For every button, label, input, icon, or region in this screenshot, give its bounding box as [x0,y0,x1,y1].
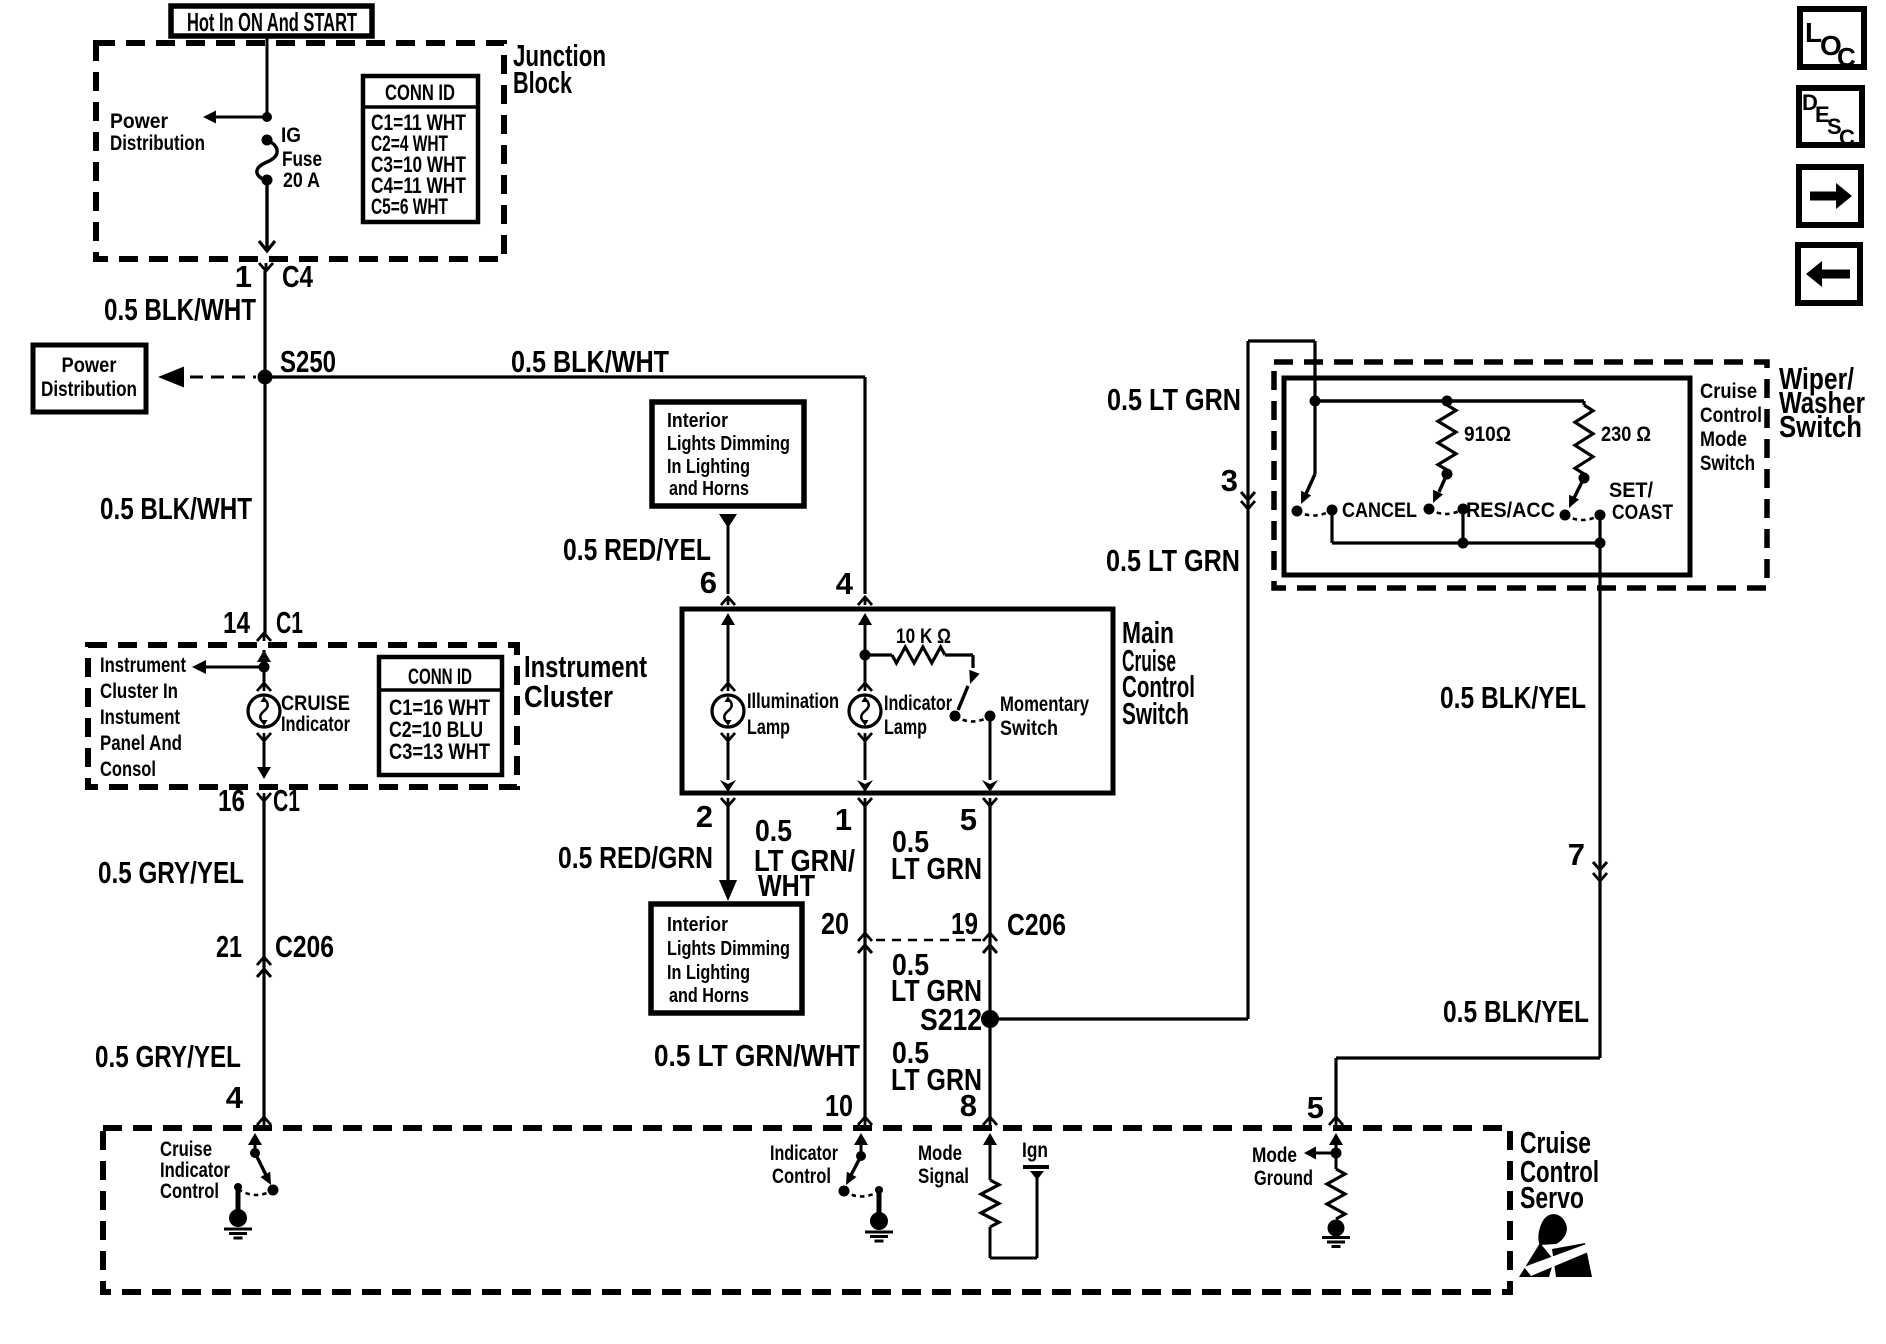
lamp Indicator Lamp [849,613,952,780]
svg-text:CONN ID: CONN ID [385,80,455,105]
Cruise Control Mode Switch box [1284,378,1690,575]
Interior Lights Dimming box (upper) [652,402,804,506]
svg-text:10 K Ω: 10 K Ω [896,625,951,648]
svg-text:C206: C206 [275,929,334,964]
svg-text:230 Ω: 230 Ω [1601,423,1651,446]
Power Distribution box (left) [33,345,146,412]
fuse IG Fuse 20 A [257,124,322,192]
wire label 0.5 GRY/YEL (upper) [98,855,244,890]
svg-text:Interior: Interior [667,914,728,936]
wire: pin 1 down through 20 C206 to pin 10 [863,806,866,1117]
wire label 0.5 BLK/YEL (upper) [1440,680,1586,715]
arrow out bottom pin 1 [857,780,873,792]
svg-text:SET/: SET/ [1609,479,1653,502]
arrow into cluster from pin 14 [257,650,271,667]
svg-text:2: 2 [696,799,713,834]
svg-text:S212: S212 [920,1002,982,1037]
svg-text:C: C [1837,42,1856,72]
svg-text:C3=13 WHT: C3=13 WHT [389,739,490,764]
svg-text:20: 20 [821,906,849,941]
svg-text:0.5 LT GRN/WHT: 0.5 LT GRN/WHT [654,1038,860,1073]
Interior Lights Dimming box (lower) [651,904,802,1013]
svg-text:Lamp: Lamp [747,716,790,739]
svg-text:910Ω: 910Ω [1464,423,1511,446]
svg-text:Distribution: Distribution [110,132,205,155]
in-line connector 21 C206 [216,929,334,977]
connector pin 2 [696,798,735,834]
instrument cluster internal note text [100,654,186,781]
svg-text:21: 21 [216,929,242,964]
svg-text:0.5 LT GRN: 0.5 LT GRN [1107,382,1241,417]
svg-text:Control: Control [772,1165,831,1188]
arrow out of cluster to pin 16 [257,741,271,779]
svg-text:0.5 GRY/YEL: 0.5 GRY/YEL [95,1039,241,1074]
svg-text:14: 14 [223,605,251,640]
svg-text:Lights Dimming: Lights Dimming [667,938,790,960]
in-line connector 3 [1221,463,1255,509]
wire label 0.5 LT GRN/WHT (to pin 10) [654,1038,860,1073]
Junction Block dashed box [96,43,504,259]
svg-text:Instrument: Instrument [100,654,186,677]
svg-text:C4: C4 [282,259,314,294]
CONN ID table (junction block) [363,76,478,222]
svg-text:Block: Block [513,65,573,100]
svg-text:Cluster: Cluster [524,679,613,714]
left arrow button [1798,245,1860,303]
svg-text:Hot In ON And START: Hot In ON And START [187,7,357,37]
svg-text:C: C [1839,125,1855,150]
svg-text:Cluster In: Cluster In [100,680,178,703]
arrow from interior-lights box (upper) down [719,514,737,594]
svg-text:16: 16 [218,783,245,818]
wire: pin 16 down to C206 [262,801,265,1117]
LOC button [1800,9,1864,72]
wire: fuse output to pin 1 C4 [259,181,275,251]
connector pin 1 C4 [235,259,314,294]
wire: BLK/WHT drop to pin 4 of main switch [863,377,866,594]
wire label 0.5 BLK/WHT (C4 to S250) [104,292,256,327]
svg-text:0.5 BLK/WHT: 0.5 BLK/WHT [511,344,669,379]
servo switch: Cruise Indicator Control [160,1133,279,1203]
wire label 0.5 LT GRN (below S212) [891,1035,982,1097]
svg-text:Indicator: Indicator [160,1159,230,1182]
CONN ID table (instrument cluster) [379,657,502,775]
mode switch: bottom bus wire [1332,541,1600,544]
svg-text:Ign: Ign [1022,1139,1048,1162]
ground (indicator control) [865,1186,893,1241]
switch SET/COAST [1560,478,1674,549]
wire: pin 3 riser and jog into mode switch [1248,341,1315,1019]
svg-text:COAST: COAST [1612,501,1673,524]
splice node S250 [258,344,337,385]
wire: pin 5 down through 19 C206 to pin 8 [988,806,991,1117]
Cruise Control Mode Switch label [1700,380,1762,475]
svg-text:Mode: Mode [918,1142,962,1165]
Cruise Control Servo dashed box [103,1128,1510,1292]
Junction Block label [513,38,606,100]
Ign terminal [1022,1139,1049,1180]
svg-text:4: 4 [226,1080,244,1115]
svg-text:0.5 RED/GRN: 0.5 RED/GRN [558,840,713,875]
wire: battery feed from Hot box into junction block [266,36,269,117]
wire label 0.5 BLK/WHT (S250 branch down) [100,491,252,526]
svg-text:5: 5 [1307,1090,1324,1125]
svg-text:Switch: Switch [1122,696,1189,731]
svg-text:Interior: Interior [667,410,728,432]
lamp Illumination Lamp [712,613,839,780]
svg-text:19: 19 [951,906,978,941]
svg-text:0.5 GRY/YEL: 0.5 GRY/YEL [98,855,244,890]
svg-text:20 A: 20 A [283,169,320,192]
svg-text:Instument: Instument [100,706,180,729]
wire label 0.5 LT GRN (lower right) [1106,543,1240,578]
svg-text:7: 7 [1568,837,1585,872]
mode switch: top bus wire [1310,396,1585,407]
svg-text:WHT: WHT [758,868,815,903]
ground (mode ground) [1322,1220,1350,1247]
svg-text:10: 10 [825,1088,853,1123]
svg-text:0.5 BLK/WHT: 0.5 BLK/WHT [100,491,252,526]
connector pin 16 C1 [218,783,300,818]
svg-text:Indicator: Indicator [770,1142,838,1165]
wire label 0.5 LT GRN (below 19) [891,947,982,1008]
arrow out bottom pin 2 [720,780,736,792]
svg-text:Indicator: Indicator [884,692,952,715]
svg-text:3: 3 [1221,463,1238,498]
Wiper/Washer Switch label [1779,361,1865,444]
in-line connector 20 C206 [821,906,872,953]
svg-text:Indicator: Indicator [281,713,350,736]
S212 bus wire to riser [990,1017,1248,1020]
svg-text:Illumination: Illumination [747,690,839,713]
Main Cruise Control Switch label [1122,615,1195,731]
ESD sensitive device symbol [1519,1214,1593,1277]
svg-text:Distribution: Distribution [41,378,137,401]
svg-text:Cruise: Cruise [1700,380,1757,403]
svg-text:C1: C1 [273,783,300,818]
switch CANCEL [1292,401,1418,543]
momentary switch arm [950,655,1090,740]
in-line connector 19 C206 [951,906,1066,953]
connector pin 10 (servo indicator control) [825,1088,872,1125]
servo input: Mode Signal resistor [918,1133,1037,1258]
wire: horizontal 0.5 BLK/WHT from S250 to main cruise switch [265,344,865,379]
wire label 0.5 LT GRN (pin 5) [891,824,982,886]
connector pin 8 (servo mode signal) [960,1088,997,1125]
svg-text:S250: S250 [280,344,336,379]
svg-text:CONN ID: CONN ID [408,664,472,689]
svg-text:C206: C206 [1007,907,1066,942]
wire label 0.5 RED/YEL [563,532,711,567]
svg-text:and Horns: and Horns [669,985,749,1007]
connector pin 5 [960,798,997,837]
connector pin 14 C1 [223,605,303,641]
svg-text:LT GRN: LT GRN [891,851,982,886]
svg-text:CRUISE: CRUISE [281,692,350,715]
svg-text:Mode: Mode [1700,428,1747,451]
C206 connector dashed line [876,939,982,942]
svg-text:Servo: Servo [1520,1180,1584,1215]
connector pin 4 (servo, cruise indicator control) [226,1080,271,1125]
svg-text:Lamp: Lamp [884,716,927,739]
wire: momentary switch to pin 5 [982,716,998,792]
svg-text:Ground: Ground [1254,1167,1313,1190]
Hot In ON And START box [171,6,372,37]
wire label 0.5 LT GRN/WHT (pin 1) [754,813,855,903]
svg-text:Fuse: Fuse [282,148,322,171]
svg-text:Switch: Switch [1779,409,1862,444]
svg-text:C1: C1 [276,605,303,640]
dashed arrow from S250 to Power Distribution box [158,367,256,388]
lamp CRUISE Indicator [248,667,350,741]
svg-text:Switch: Switch [1000,717,1058,740]
svg-text:0.5 RED/YEL: 0.5 RED/YEL [563,532,711,567]
svg-text:6: 6 [700,565,717,600]
arrow to Power Distribution (junction block) [110,110,267,155]
svg-text:Lights Dimming: Lights Dimming [667,433,790,455]
resistor 910 ohm [1438,405,1511,480]
svg-text:Consol: Consol [100,758,156,781]
svg-text:In Lighting: In Lighting [667,456,750,478]
in-line connector 7 [1568,837,1607,881]
svg-text:1: 1 [235,259,252,294]
svg-text:Cruise: Cruise [160,1138,212,1161]
node: junction of feed and power-distribution arrow [262,112,272,122]
servo input: Mode Ground [1252,1133,1345,1219]
svg-text:Switch: Switch [1700,452,1755,475]
resistor 230 ohm [1575,401,1651,484]
svg-text:In Lighting: In Lighting [667,962,750,984]
wire label 0.5 BLK/YEL (lower) [1443,994,1589,1029]
resistor 10 K ohm [865,625,973,663]
right arrow button [1799,167,1861,225]
svg-text:1: 1 [835,802,852,837]
Instrument Cluster label [524,649,647,714]
svg-text:0.5 LT GRN: 0.5 LT GRN [1106,543,1240,578]
Cruise Control Servo label [1520,1125,1599,1215]
Instrument Cluster dashed box [88,645,517,787]
connector pin 6 (main cruise control switch) [700,565,735,605]
svg-text:IG: IG [281,124,301,147]
svg-text:Panel And: Panel And [100,732,182,755]
svg-text:0.5 BLK/WHT: 0.5 BLK/WHT [104,292,256,327]
svg-text:and Horns: and Horns [669,478,749,500]
splice node S212 [920,1002,999,1037]
connector pin 1 [835,798,872,837]
DESC button [1799,88,1862,150]
wire: C4 down to S250 and on to instrument cluster [263,271,266,636]
svg-text:Power: Power [62,354,117,377]
switch RES/ACC [1424,474,1556,549]
svg-text:Mode: Mode [1252,1144,1297,1167]
wire: pin 2 to interior lights (lower) with RED/GRN label [558,806,737,901]
wire label 0.5 LT GRN (upper right) [1107,382,1241,417]
svg-text:Signal: Signal [918,1165,969,1188]
connector pin 5 (servo mode ground) [1307,1090,1343,1125]
svg-text:0.5 BLK/YEL: 0.5 BLK/YEL [1443,994,1589,1029]
svg-text:8: 8 [960,1088,977,1123]
svg-text:Power: Power [110,110,168,133]
connector pin 4 (main cruise control switch) [836,566,872,605]
arrow to instrument cluster note [192,660,270,674]
Main Cruise Control Switch box [682,609,1113,793]
servo switch: Indicator Control [770,1133,879,1197]
svg-text:0.5 BLK/YEL: 0.5 BLK/YEL [1440,680,1586,715]
svg-text:5: 5 [960,802,977,837]
wire: SET/COAST output down to pin 7 and Mode Ground [1336,543,1600,1117]
ground (cruise indicator control) [224,1183,252,1238]
svg-text:4: 4 [836,566,854,601]
svg-text:Control: Control [160,1180,219,1203]
svg-text:C5=6 WHT: C5=6 WHT [371,194,448,219]
svg-text:RES/ACC: RES/ACC [1466,499,1555,522]
svg-text:CANCEL: CANCEL [1342,499,1417,522]
svg-text:Control: Control [1700,404,1762,427]
svg-text:Momentary: Momentary [1000,693,1089,716]
wire label 0.5 GRY/YEL (lower) [95,1039,241,1074]
Wiper/Washer Switch dashed box [1274,362,1767,588]
